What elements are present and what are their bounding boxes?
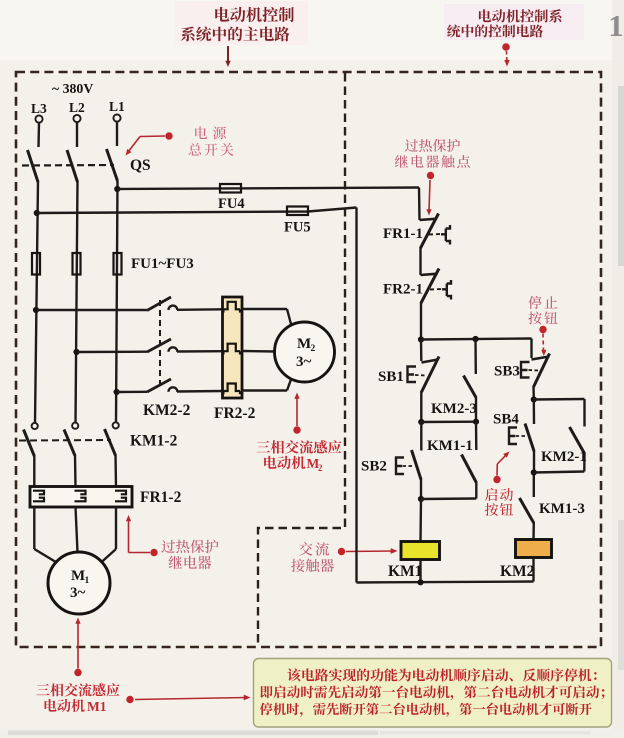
- wire row D: [534, 398, 585, 401]
- motor M2: [275, 322, 335, 382]
- callout: start button (qi dong / an niu): [485, 450, 513, 516]
- node row D left: [531, 396, 537, 402]
- svg-text:M1: M1: [87, 699, 107, 714]
- switch QS pole L1 blade: [107, 149, 118, 181]
- label: main-circuit title (dian dong ji kong zhi / xi tong zhong de zhu dian lu): [175, 1, 308, 45]
- svg-text:KM2-1: KM2-1: [541, 449, 587, 465]
- contact KM1-2 linkage dashed bar: [19, 439, 111, 442]
- push button SB3 actuator: [521, 362, 530, 378]
- push button SB1 actuator dashes: [415, 374, 426, 377]
- svg-text:L1: L1: [109, 99, 125, 114]
- node: L3 to FU5 feeder: [34, 210, 40, 216]
- svg-text:FU5: FU5: [284, 220, 311, 236]
- push button SB3 actuator dashes: [529, 369, 539, 372]
- label: control-circuit title (dian dong ji kong zhi xi / tong zhong de kong zhi dian lu): [444, 4, 584, 40]
- svg-text:M: M: [71, 568, 85, 584]
- contact KM1-2 pole 3 blade: [105, 429, 116, 455]
- push button SB1 top bar: [422, 360, 439, 363]
- contact KM1-2 pole 2 blade: [64, 430, 75, 456]
- svg-text:SB1: SB1: [378, 369, 404, 385]
- svg-text:FR1-2: FR1-2: [140, 489, 182, 506]
- push button SB4 actuator dashes: [516, 435, 526, 437]
- terminal L3: [35, 115, 42, 122]
- wire M2 branch line 1: [36, 309, 147, 311]
- terminal L3 label: [31, 101, 47, 116]
- wire FR2-2 to M2 mid: [242, 350, 275, 353]
- callout: AC contactor (jiao liu / jie chu qi): [291, 542, 397, 572]
- node: M2 branch phase 2: [73, 349, 79, 355]
- svg-text:KM1: KM1: [388, 563, 422, 580]
- wire FU4 feeder: [117, 188, 419, 190]
- node row C left: [418, 496, 424, 502]
- wire phase L1 vertical (QS to KM1-2): [116, 181, 118, 423]
- node: M2 branch phase 3: [114, 389, 120, 395]
- callout dot + arrow from control-circuit title to border: [502, 43, 510, 66]
- wire row B: [421, 421, 476, 424]
- wire KM1-3 to KM2 coil: [532, 522, 535, 540]
- contact FR1-1 blade: [421, 214, 439, 249]
- wire L2 drop to QS: [76, 123, 78, 148]
- node: L1 to FU4 feeder: [114, 186, 120, 192]
- fuse FU2: [73, 253, 81, 275]
- label FR1-2: [140, 489, 182, 506]
- wire control bottom rail: [357, 582, 534, 583]
- svg-text:SB2: SB2: [361, 459, 387, 475]
- node row B left: [418, 419, 424, 425]
- contact KM2-2 linkage dashed bar: [159, 300, 161, 387]
- wire KM2-1 to row E: [583, 453, 586, 472]
- wire KM2 coil to bottom rail: [532, 558, 534, 582]
- wire row E to KM1-3: [533, 473, 535, 498]
- label FR2-2: [214, 405, 256, 422]
- thermal relay FR1-2 heater 2: [75, 491, 86, 502]
- svg-text:KM1-1: KM1-1: [427, 438, 473, 454]
- label FR2-1: [383, 282, 423, 298]
- label ~380V: [52, 81, 93, 96]
- svg-text:2: 2: [311, 344, 316, 354]
- node: M2 branch phase 1: [33, 307, 39, 313]
- svg-text:~ 380V: ~ 380V: [52, 81, 93, 96]
- note text line 2 (ji qi dong shi ...): [260, 685, 604, 700]
- push button SB2 actuator dashes: [403, 465, 413, 467]
- contact KM2-2 pole 1 seat: [169, 306, 178, 310]
- motor M1: [48, 552, 110, 614]
- label SB4: [493, 412, 519, 428]
- svg-text:KM2: KM2: [500, 563, 535, 580]
- wire L1 drop to QS: [116, 122, 118, 146]
- svg-text:KM1-3: KM1-3: [539, 501, 585, 517]
- wire KM1 coil to bottom rail: [419, 560, 421, 583]
- callout: stop button (ting zhi / an niu): [528, 296, 557, 356]
- callout arrow: M1 label to note box: [126, 695, 250, 704]
- svg-text:1: 1: [608, 8, 624, 43]
- wire phase 3 (FR1-2 to M1): [101, 507, 117, 563]
- contact KM1-3 blade: [520, 498, 534, 523]
- push button SB3 blade: [534, 354, 550, 388]
- node row B right: [473, 419, 479, 425]
- contact FR2-1 top bar: [421, 274, 438, 275]
- contact FR1-1 reset dashes: [429, 233, 441, 236]
- fuse FU4: [220, 184, 241, 193]
- push button SB2 actuator: [396, 458, 404, 475]
- label FR1-1: [383, 226, 423, 242]
- push button SB4 actuator: [509, 428, 517, 445]
- callout arrow: M1 label to motor: [74, 618, 81, 677]
- wire control left rail (FU5 feed): [355, 208, 357, 583]
- wire phase L3 vertical (QS to KM1-2): [35, 181, 38, 423]
- svg-text:KM2-2: KM2-2: [143, 402, 191, 419]
- label QS: [130, 157, 151, 174]
- contact KM2-3 blade: [464, 376, 477, 398]
- svg-text:KM1-2: KM1-2: [130, 433, 178, 450]
- contact FR2-1 reset hook: [442, 280, 451, 300]
- svg-text:FU4: FU4: [218, 196, 245, 212]
- contact KM2-1 blade: [570, 427, 585, 454]
- wire row C to KM1 coil: [419, 499, 422, 542]
- contact FR2-1 reset dashes: [430, 288, 442, 291]
- label KM2-3: [431, 401, 477, 417]
- wire M2 branch line 2 (contact to FR2-2): [177, 350, 223, 353]
- wire FU5 feeder: [37, 208, 357, 214]
- wire M2 branch line 1 (contact to FR2-2): [177, 308, 223, 311]
- callout: overheat protection relay contacts (guo re bao hu / ji dian qi chu dian): [395, 139, 470, 216]
- contact FR1-1 top bar: [420, 219, 438, 220]
- wire node A to SB1: [420, 340, 423, 362]
- label FU5: [284, 220, 311, 236]
- contact KM1-2 pole 3 terminal: [113, 422, 119, 428]
- wire KM2-3 to row B: [475, 397, 477, 423]
- thermal relay FR1-2 heater 3: [115, 491, 126, 502]
- svg-text:SB4: SB4: [493, 412, 519, 428]
- label SB1: [378, 369, 404, 385]
- wire control feed from FU4 (down to FR1-1): [418, 188, 421, 221]
- terminal L1 label: [109, 99, 125, 114]
- label KM1-2: [130, 433, 178, 450]
- note box (function description): [254, 659, 612, 728]
- svg-text:FR1-1: FR1-1: [383, 226, 423, 242]
- wire phase 2 (KM1-2 to FR1-2): [74, 455, 77, 487]
- svg-text:QS: QS: [130, 157, 151, 174]
- label KM2-2: [143, 402, 191, 419]
- svg-text:L2: L2: [69, 100, 85, 115]
- wire row E: [534, 472, 585, 473]
- contact KM2-2 pole 1 blade: [147, 297, 171, 311]
- wire KM1-1 to row C: [475, 482, 477, 499]
- wire SB4 to row E: [533, 450, 535, 473]
- svg-text:KM2-3: KM2-3: [431, 401, 477, 417]
- fuse FU1: [32, 253, 40, 275]
- svg-text:M: M: [297, 336, 311, 352]
- arrow from main-circuit title to border: [225, 46, 230, 67]
- node: KM2-3 branch tap: [472, 336, 478, 342]
- wire phase 2 (FR1-2 to M1): [76, 507, 78, 552]
- wire phase 1 (FR1-2 to M1): [34, 507, 57, 563]
- contact KM2-2 pole 2 seat: [169, 347, 178, 351]
- switch QS pole L3 blade: [28, 150, 39, 182]
- push button SB3 top bar: [532, 357, 550, 360]
- switch QS pole L2 blade: [67, 150, 78, 182]
- terminal L2 label: [69, 100, 85, 115]
- wire M2 branch line 3 (contact to FR2-2): [177, 390, 223, 393]
- wire FR2-2 to M2 bottom: [242, 378, 292, 391]
- svg-text:FR2-2: FR2-2: [214, 405, 256, 422]
- contact KM1-2 pole 1 blade: [24, 430, 35, 457]
- wire phase 3 (KM1-2 to FR1-2): [114, 455, 117, 487]
- wire SB3 to row D: [532, 386, 535, 400]
- wire L3 drop to QS: [37, 123, 40, 147]
- label SB2: [361, 459, 387, 475]
- wire FR2-1 down to node A: [420, 302, 422, 340]
- thermal relay FR2-2 heater 2: [223, 344, 240, 355]
- terminal L1: [113, 114, 120, 121]
- dashed divider between main and control circuit: [258, 73, 345, 647]
- wire M2 branch line 3: [117, 391, 147, 394]
- thermal relay FR1-2 heater 1: [33, 491, 44, 502]
- label KM2: [500, 563, 535, 580]
- contact FR1-1 reset hook: [441, 225, 450, 245]
- svg-text:3~: 3~: [296, 354, 312, 370]
- wire node A row: [421, 339, 532, 340]
- thermal relay FR2-2 heater 3: [223, 384, 240, 395]
- node row E: [531, 469, 537, 475]
- label: three-phase AC induction motor M1 (san xiang jiao liu gan ying / dian dong ji M1): [36, 683, 119, 714]
- wire FR1-1 to FR2-1: [419, 247, 421, 275]
- label SB3: [494, 364, 520, 380]
- wire phase 1 (KM1-2 to FR1-2): [33, 455, 35, 487]
- svg-text:FU1~FU3: FU1~FU3: [131, 256, 194, 272]
- contactor coil KM1: [401, 542, 440, 560]
- node: KM1 coil to bottom rail: [417, 579, 423, 585]
- contact KM1-2 pole 1 terminal: [32, 423, 38, 429]
- thermal relay FR1-2 body: [30, 487, 132, 508]
- contact FR2-1 blade: [421, 269, 439, 304]
- terminal L2: [73, 115, 80, 122]
- wire M2 branch line 2: [77, 351, 148, 354]
- label KM1-3: [539, 501, 585, 517]
- wire row D to SB4: [533, 400, 536, 425]
- callout: overheat protection relay (guo re bao hu / ji dian qi): [126, 515, 219, 569]
- label FU1~FU3: [131, 256, 194, 272]
- contactor coil KM2: [516, 540, 552, 558]
- wire FR2-2 to M2 top: [242, 309, 292, 326]
- thermal relay FR2-2 heater 1: [223, 302, 240, 313]
- label KM1: [388, 563, 422, 580]
- callout: power master switch (dian yuan / zong kai guan): [123, 126, 233, 157]
- fuse FU5: [287, 207, 308, 216]
- contact KM2-2 pole 3 seat: [169, 387, 178, 391]
- wire phase L2 vertical (QS to KM1-2): [76, 181, 78, 423]
- note text line 3 (ting ji shi ...): [260, 703, 592, 717]
- contact KM1-1 blade: [462, 455, 477, 483]
- fuse FU3: [114, 253, 122, 275]
- svg-text:3~: 3~: [70, 585, 86, 601]
- svg-text:L3: L3: [31, 101, 47, 116]
- note text line 1 (gai dian lu ...): [287, 668, 596, 681]
- svg-text:SB3: SB3: [494, 364, 520, 380]
- callout: three-phase AC induction motor M2 (san xiang jiao liu gan ying / dian dong ji M2): [257, 393, 342, 474]
- wire SB2 to row C: [420, 479, 422, 500]
- node A (top of KM1 branch): [418, 336, 424, 342]
- contact KM1-2 pole 2 terminal: [72, 423, 78, 429]
- contact KM2-3 upper wire: [474, 339, 477, 374]
- switch QS linkage dashed bar: [22, 164, 114, 167]
- label KM2-1: [541, 449, 587, 465]
- label KM1-1: [427, 438, 473, 454]
- contact KM2-2 pole 3 blade: [147, 379, 171, 392]
- push button SB1 actuator: [408, 367, 417, 383]
- contact KM2-1 upper wire: [583, 399, 585, 427]
- wire node A row to SB3: [530, 339, 532, 359]
- outer dashed frame (whole wiring diagram): [16, 72, 601, 647]
- contact KM1-1 upper wire: [475, 422, 478, 450]
- wire SB1 to row B: [420, 391, 422, 422]
- contact KM2-2 pole 2 blade: [147, 339, 171, 352]
- wire row B to SB2: [420, 422, 422, 451]
- page number 1: [608, 8, 624, 43]
- push button SB1 blade: [422, 357, 440, 393]
- push button SB2 blade: [412, 450, 422, 480]
- thermal relay FR2-2 body: [223, 297, 243, 398]
- svg-text:FR2-1: FR2-1: [383, 282, 423, 298]
- label FU4: [218, 196, 245, 212]
- svg-text:2: 2: [318, 463, 323, 473]
- wire row C: [421, 497, 476, 500]
- push button SB4 blade: [525, 424, 534, 452]
